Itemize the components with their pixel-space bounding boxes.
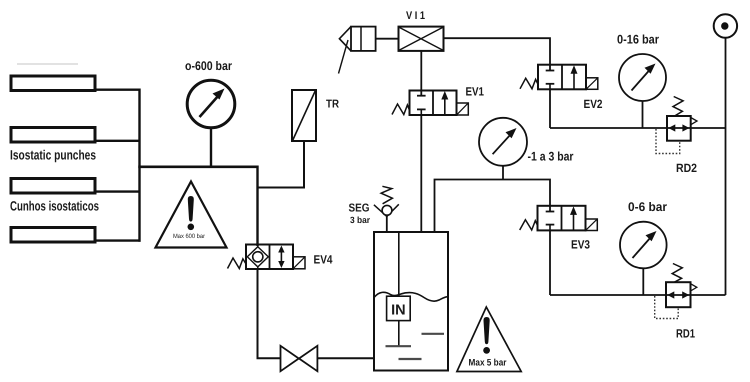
svg-text:EV1: EV1	[466, 85, 485, 99]
warning triangle W2 Max 5 bar	[457, 307, 521, 372]
valve EV4 body	[246, 245, 293, 270]
punch bar P4	[11, 228, 95, 243]
spring EV4	[228, 258, 247, 269]
punch bar P2	[11, 128, 95, 143]
svg-text:SEG: SEG	[349, 203, 370, 215]
svg-text:V I 1: V I 1	[406, 10, 425, 22]
svg-text:Isostatic punches: Isostatic punches	[10, 148, 96, 163]
svg-text:3 bar: 3 bar	[350, 215, 370, 225]
punch bar P1	[11, 76, 95, 91]
wire P1 to bus	[95, 88, 141, 90]
wire EV3 down	[549, 230, 551, 295]
wire actuator to body	[376, 38, 399, 40]
wire EV1 to tank	[420, 115, 422, 232]
solenoid EV2	[586, 78, 598, 90]
pilot dotted line RD1	[655, 296, 679, 319]
valve V I 1 body	[399, 27, 444, 51]
valve EV1 body	[410, 91, 457, 116]
wire main supply horizontal	[138, 166, 258, 169]
svg-text:EV4: EV4	[314, 253, 333, 267]
actuator V I 1	[339, 27, 376, 74]
valve EV3 flow arrow	[570, 206, 577, 230]
wire VI1 right to EV2	[444, 38, 551, 70]
valve EV1 blocked port Ts	[417, 96, 426, 115]
relief valve SEG	[374, 186, 399, 233]
svg-text:RD1: RD1	[676, 327, 695, 341]
svg-text:Max 5 bar: Max 5 bar	[469, 358, 507, 369]
pressure gauge G4 0-6 bar	[620, 222, 667, 295]
valve EV2 flow arrow	[571, 65, 578, 89]
vent symbol top right	[714, 14, 737, 37]
wire TR drop	[257, 141, 305, 188]
svg-text:Max 600 bar: Max 600 bar	[173, 233, 205, 240]
level dash bottom	[399, 358, 422, 360]
punch bar P3	[11, 179, 95, 194]
regulator RD2	[667, 97, 697, 141]
svg-text:o-600 bar: o-600 bar	[185, 59, 232, 73]
pilot dotted line RD2	[656, 129, 680, 154]
valve EV2 body	[538, 65, 586, 90]
svg-text:RD2: RD2	[676, 161, 697, 175]
dip tube	[386, 233, 412, 346]
solenoid EV3	[586, 219, 598, 231]
transducer TR	[292, 90, 316, 141]
solenoid EV1	[457, 103, 469, 115]
svg-text:EV2: EV2	[584, 97, 603, 111]
valve EV4 flow arrow	[278, 246, 284, 269]
svg-text:TR: TR	[326, 99, 340, 111]
svg-text:-1 a 3 bar: -1 a 3 bar	[528, 150, 574, 164]
warning triangle W1 Max 600 bar	[156, 182, 227, 248]
pressure gauge G1 o-600 bar	[187, 80, 235, 167]
valve EV2 blocked port Ts	[546, 71, 555, 90]
faint artifact line	[17, 63, 78, 65]
bus node left manifold	[138, 89, 140, 242]
valve EV4 check element	[247, 245, 268, 270]
svg-text:Cunhos isostaticos: Cunhos isostaticos	[10, 199, 99, 214]
wire P2 to bus	[95, 140, 141, 142]
solenoid EV4	[293, 257, 305, 269]
valve EV3 blocked port Ts	[546, 212, 555, 231]
pressure gauge G3 0-16 bar	[619, 54, 666, 128]
spring EV1	[392, 104, 410, 115]
valve EV1 flow arrow	[441, 91, 448, 115]
wire tank branch to gauge/EV3	[435, 180, 551, 233]
svg-text:0-16 bar: 0-16 bar	[617, 33, 659, 47]
bus right vertical	[725, 38, 727, 295]
spring EV3	[520, 220, 538, 230]
wire P3 to bus	[95, 190, 141, 192]
level dash right	[422, 333, 445, 335]
wire EV4 down to shutoff	[258, 269, 281, 358]
regulator RD1	[666, 264, 697, 308]
svg-text:IN: IN	[391, 303, 406, 319]
IN box	[387, 296, 411, 320]
valve EV3 body	[538, 206, 586, 231]
wire shutoff to tank	[317, 357, 375, 359]
liquid level wavy line	[375, 292, 448, 301]
wire EV2 down	[549, 89, 551, 128]
wire main vertical to EV4	[256, 166, 258, 247]
wire EV3 line to RD1 and bus	[550, 294, 726, 296]
wire EV2 line to RD2 and bus	[550, 127, 726, 129]
wire P4 to bus	[95, 239, 141, 241]
svg-text:EV3: EV3	[571, 238, 590, 252]
wire VI1 down to EV1	[420, 51, 422, 96]
shut-off valve V2 bowtie	[281, 346, 318, 371]
pressure gauge G2 -1 a 3 bar	[479, 118, 527, 180]
svg-text:0-6 bar: 0-6 bar	[628, 200, 667, 214]
tank T1	[374, 232, 448, 371]
spring EV2	[520, 78, 538, 89]
